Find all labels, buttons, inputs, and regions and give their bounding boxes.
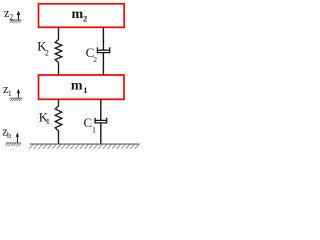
node z1 wall mark: [10, 98, 22, 101]
spring K2: [55, 27, 62, 75]
damper C1 rod upper: [100, 99, 102, 120]
svg-text:C: C: [84, 115, 93, 130]
label K2: [37, 40, 49, 58]
svg-text:1: 1: [83, 85, 87, 95]
label z1: [3, 82, 12, 98]
ground line: [30, 143, 140, 145]
damper C1 rod lower: [100, 123, 102, 144]
ground hatching: [29, 145, 139, 149]
svg-text:1: 1: [92, 126, 96, 135]
damper C1 piston: [95, 119, 107, 121]
damper C2 piston: [97, 49, 109, 51]
mass m1: [39, 75, 125, 99]
svg-text:1: 1: [8, 89, 12, 98]
node zb arrow: [16, 132, 19, 143]
svg-text:1: 1: [46, 117, 50, 126]
label C1: [84, 115, 97, 135]
node z2 wall mark: [10, 20, 22, 23]
label K1: [39, 111, 50, 127]
label m2: [72, 7, 88, 24]
mass m2: [39, 4, 125, 28]
damper C2 rod lower: [102, 53, 104, 75]
label C2: [86, 45, 98, 64]
label z2: [4, 6, 13, 21]
svg-text:2: 2: [83, 14, 87, 24]
label zb: [2, 124, 11, 140]
svg-text:2: 2: [45, 49, 49, 58]
spring K1: [55, 99, 62, 144]
svg-text:b: b: [7, 131, 11, 140]
node z2 arrow: [17, 11, 20, 21]
damper C1 cup: [95, 118, 107, 123]
node z1 arrow: [17, 89, 20, 98]
label m1: [71, 78, 88, 95]
svg-text:m: m: [72, 7, 84, 22]
svg-text:2: 2: [93, 55, 97, 64]
damper C2 rod upper: [102, 27, 104, 50]
damper C2 cup: [97, 47, 109, 52]
svg-text:m: m: [71, 78, 83, 93]
node zb wall mark: [6, 143, 21, 146]
